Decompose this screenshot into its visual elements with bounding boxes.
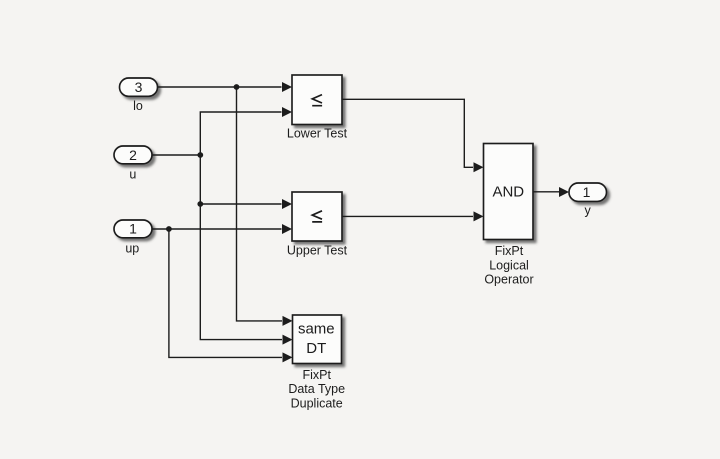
svg-text:Data Type: Data Type	[288, 382, 345, 396]
svg-text:Lower Test: Lower Test	[287, 127, 348, 141]
wire lo branch down to sameDT in1	[237, 87, 283, 321]
arrow outport	[559, 187, 569, 197]
inport 2 (u)	[114, 146, 152, 164]
svg-text:FixPt: FixPt	[302, 368, 331, 382]
svg-text:Duplicate: Duplicate	[291, 397, 343, 411]
block Lower Test	[292, 75, 342, 125]
arrow Lower Test in2	[282, 107, 292, 117]
wire Upper Test out to AND in2	[342, 215, 473, 217]
svg-text:same: same	[298, 320, 335, 337]
svg-text:up: up	[125, 242, 139, 256]
arrow Upper Test in1	[282, 199, 292, 209]
svg-text:u: u	[129, 168, 136, 182]
arrow AND in1	[474, 162, 484, 172]
wire Lower Test out to AND in1	[342, 99, 473, 167]
svg-text:1: 1	[129, 221, 137, 237]
inport 3 (lo)	[120, 78, 158, 96]
arrow sameDT in1	[283, 316, 293, 326]
arrow Upper Test in2	[282, 224, 292, 234]
svg-text:Logical: Logical	[489, 258, 529, 272]
wire up to Upper Test in2	[152, 228, 281, 230]
inport 1 (up)	[114, 220, 152, 238]
arrow sameDT in3	[283, 352, 293, 362]
svg-text:3: 3	[135, 79, 143, 95]
wire u up to Lower Test in2	[200, 112, 281, 155]
arrow sameDT in2	[283, 335, 293, 345]
arrow AND in2	[474, 211, 484, 221]
node up junction	[166, 226, 172, 232]
svg-text:Operator: Operator	[484, 273, 533, 287]
wire up branch down to sameDT in3	[169, 229, 282, 357]
wire u down to Upper Test in1	[200, 155, 281, 204]
block sameDT	[293, 315, 342, 364]
wire lo to Lower Test in1	[158, 86, 282, 88]
label FixPt Data Type Duplicate	[288, 368, 345, 411]
svg-text:1: 1	[583, 184, 591, 200]
svg-text:AND: AND	[492, 183, 524, 200]
svg-text:Upper Test: Upper Test	[287, 244, 348, 258]
outport 1 (y)	[569, 183, 607, 201]
arrow Lower Test in1	[282, 82, 292, 92]
label FixPt Logical Operator	[484, 244, 533, 287]
block Upper Test	[292, 192, 342, 241]
node lo junction	[234, 84, 240, 90]
wire u to junction	[152, 154, 201, 156]
svg-text:2: 2	[129, 147, 137, 163]
wire AND out to outport y	[533, 191, 559, 193]
node u junction	[197, 152, 203, 158]
svg-text:lo: lo	[133, 99, 143, 113]
node u junction 2	[197, 201, 203, 207]
block AND (op-amp style logical operator)	[484, 144, 534, 240]
svg-text:y: y	[584, 204, 591, 218]
svg-text:DT: DT	[306, 340, 326, 357]
svg-text:FixPt: FixPt	[495, 244, 524, 258]
wire u down to sameDT in2	[200, 204, 282, 340]
